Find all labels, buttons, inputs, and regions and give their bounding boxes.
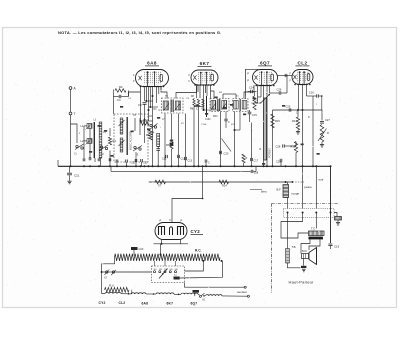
label bleu wire xyxy=(261,190,267,194)
MF2 primary coil xyxy=(211,101,216,110)
chassis boundary dash-dot horizontal xyxy=(272,203,339,205)
heater filament 6Q7 xyxy=(205,295,249,298)
scan noise speckles xyxy=(60,40,371,281)
wire tuning section verticals xyxy=(95,128,110,166)
tube 6Q7 U3 xyxy=(247,60,277,86)
MF1 secondary coil xyxy=(175,101,180,110)
wire MF2 primary up to 6K7 plate xyxy=(211,91,215,99)
resistor R2 xyxy=(115,85,126,92)
svg-text:C14: C14 xyxy=(249,86,254,90)
wire AVC lower line xyxy=(149,181,293,183)
svg-text:T.B.: T.B. xyxy=(292,245,297,249)
resistor R5 xyxy=(141,118,150,126)
wire coupling down xyxy=(272,109,304,167)
wire switch branch xyxy=(101,271,152,273)
capacitor C24b xyxy=(224,112,230,129)
capacitor C12 xyxy=(178,155,186,161)
wire 6K7 extra pins xyxy=(198,85,220,111)
svg-text:C25: C25 xyxy=(286,105,291,109)
svg-text:P: P xyxy=(181,219,183,223)
svg-text:6A8: 6A8 xyxy=(142,301,149,305)
svg-text:C21: C21 xyxy=(74,174,80,178)
junction dots heater line xyxy=(128,293,205,297)
svg-text:R: R xyxy=(260,148,262,151)
svg-text:L2: L2 xyxy=(81,139,84,143)
svg-text:C13b: C13b xyxy=(201,124,207,126)
svg-text:C8: C8 xyxy=(138,103,142,107)
wire dashes to speaker plug xyxy=(293,181,304,183)
wire main bus xyxy=(58,165,331,167)
svg-text:NOTA. — Les commutateurs I1,: NOTA. — Les commutateurs I1, I2, I3, I4,… xyxy=(58,30,222,35)
wire 6K7 pin drops xyxy=(197,85,211,110)
svg-text:R17: R17 xyxy=(292,119,297,123)
capacitor C4 xyxy=(114,95,129,102)
svg-text:jaune: jaune xyxy=(304,185,313,189)
svg-text:6Q7: 6Q7 xyxy=(191,301,198,305)
wire antenna A down xyxy=(70,89,72,112)
capacitor C21 xyxy=(67,166,80,181)
capacitor C16 xyxy=(307,91,323,111)
CY2 label xyxy=(191,229,204,235)
resistor R17 screen xyxy=(292,109,300,130)
switch I4 xyxy=(150,124,158,135)
capacitor C17b xyxy=(251,122,259,167)
tube 6K7 U2 xyxy=(191,61,218,86)
wire 6Q7 plate drop xyxy=(269,85,271,94)
capacitor C3 xyxy=(89,157,91,160)
junction dots mid band xyxy=(116,152,221,200)
volume pot wiper arrow xyxy=(261,94,271,103)
trimmer arrow osc xyxy=(119,120,125,146)
resistor R10 xyxy=(202,99,206,111)
svg-text:R12: R12 xyxy=(254,100,259,102)
capacitor C18 xyxy=(251,166,259,174)
wire bleu stub xyxy=(250,189,262,191)
svg-text:L1: L1 xyxy=(81,124,84,128)
oscillator coil L5 xyxy=(120,138,123,152)
ground speaker right xyxy=(336,223,340,226)
wire bus to rectifier xyxy=(172,165,204,222)
wire detector drop2 xyxy=(234,112,241,132)
svg-text:R.U.: R.U. xyxy=(109,283,115,287)
wire R.C. left end loop xyxy=(102,257,115,293)
svg-text:P: P xyxy=(160,219,162,223)
resistor R13 vertical xyxy=(253,92,262,110)
svg-text:C4: C4 xyxy=(117,98,121,102)
wire 6A8 pin fan xyxy=(145,87,158,109)
capacitor C6 on bus xyxy=(126,160,128,167)
svg-text:R4: R4 xyxy=(146,133,150,137)
choke B.F. xyxy=(277,182,289,209)
tube CL2 U4 xyxy=(292,60,313,85)
resistor R15 xyxy=(271,114,281,128)
svg-text:CL2: CL2 xyxy=(298,60,308,65)
svg-text:CY2: CY2 xyxy=(99,301,106,305)
volume potentiometer R18 element xyxy=(260,98,267,160)
tone potentiometer R19 xyxy=(318,125,329,143)
svg-text:secteur: secteur xyxy=(237,290,247,294)
coil label L1 xyxy=(81,124,84,128)
earth terminal T xyxy=(69,112,75,116)
MF2 secondary coil xyxy=(222,101,227,110)
svg-text:130: 130 xyxy=(159,269,162,271)
CY2 anode 2 xyxy=(178,227,184,236)
label 6K7 filament xyxy=(167,301,174,305)
wire noir drop xyxy=(330,166,332,243)
wire MF2 bottom drop xyxy=(220,112,222,168)
svg-text:B.M: B.M xyxy=(302,250,306,253)
wire transformer to voice coil xyxy=(301,239,320,253)
capacitor C23 filter xyxy=(131,247,144,256)
volume potentiometer R18 lines xyxy=(264,85,268,167)
junction antenna bus xyxy=(70,165,72,167)
capacitor C9 on bus xyxy=(141,159,143,166)
tiny labels right section xyxy=(296,103,317,119)
wire AVC diagonal xyxy=(222,139,232,152)
scan noise field xyxy=(6,32,393,305)
wire 6Q7 to CL2 grid coupling xyxy=(278,74,293,77)
svg-text:R2: R2 xyxy=(119,85,123,89)
capacitor C22 mains xyxy=(193,290,200,296)
trimmer capacitor C2 xyxy=(83,158,85,161)
dropper resistor R.C. zigzag xyxy=(115,254,221,261)
MF1 core bars xyxy=(171,100,174,113)
svg-text:C29: C29 xyxy=(276,160,281,164)
svg-text:noir: noir xyxy=(319,178,324,182)
detector primary coil xyxy=(234,101,239,110)
wire osc block internals xyxy=(135,118,145,143)
switch I5b xyxy=(111,270,116,275)
capacitor C15 xyxy=(248,110,258,122)
label CY2 filament xyxy=(99,301,106,305)
wire detector to 6Q7 diode xyxy=(244,85,254,99)
ground below C21 xyxy=(67,181,71,184)
switch I5a xyxy=(105,269,110,279)
svg-text:110: 110 xyxy=(154,269,157,271)
resistor R4 xyxy=(146,130,152,140)
wire CY2 to heater chain xyxy=(160,244,162,256)
wire secondary right side xyxy=(89,128,91,158)
wire 6Q7 diode drops xyxy=(258,85,262,98)
coil L1 xyxy=(87,124,92,129)
wire voice coil to ground xyxy=(303,259,305,266)
wire selector taps to R.C. xyxy=(155,261,176,266)
wire heater chain xyxy=(102,293,105,295)
svg-text:CL2: CL2 xyxy=(119,301,126,305)
padding coil L6 xyxy=(157,134,160,147)
svg-text:C26: C26 xyxy=(277,88,282,92)
wire selector to tap 2 xyxy=(180,261,223,278)
tiny text labels scatter xyxy=(128,92,268,129)
switch I3 xyxy=(133,146,142,157)
coil L2 xyxy=(87,139,92,144)
wire coil L1 L2 left leads xyxy=(84,126,87,158)
oscillator block vertical label xyxy=(129,131,133,150)
svg-text:C19b: C19b xyxy=(205,119,211,121)
resistor R1 xyxy=(108,137,116,145)
svg-text:C23: C23 xyxy=(139,247,144,251)
chassis boundary dash-dot vertical xyxy=(271,204,273,293)
potentiometer vertical label xyxy=(268,148,271,158)
svg-text:T: T xyxy=(74,112,76,116)
wire bus left upturn xyxy=(57,160,59,166)
detector core bars xyxy=(240,99,241,111)
switch I1 xyxy=(75,144,84,156)
tube 6A8 U1 xyxy=(136,60,169,87)
svg-text:R14: R14 xyxy=(222,184,227,188)
capacitor C8 screen xyxy=(138,103,147,121)
svg-text:T.C: T.C xyxy=(311,227,315,231)
svg-text:R16: R16 xyxy=(291,145,296,149)
resistor R7 AVC xyxy=(155,180,166,187)
capacitor C26 xyxy=(270,76,288,95)
voice coil B.M. xyxy=(302,250,309,259)
label jaune wire xyxy=(304,185,313,189)
CY2 pin labels P xyxy=(160,218,183,223)
wire 6Q7 diode load xyxy=(251,97,259,103)
wire strip to output transformer xyxy=(281,213,316,232)
svg-text:R: R xyxy=(327,132,329,135)
wire under 6K7 resistors xyxy=(193,107,203,168)
svg-text:MF2: MF2 xyxy=(213,116,218,118)
svg-text:C20: C20 xyxy=(224,152,229,156)
value label blobs xyxy=(89,97,320,165)
resistor R14 AVC xyxy=(219,180,229,187)
output transformer T.C. xyxy=(309,227,325,240)
svg-text:C15: C15 xyxy=(252,113,257,117)
svg-text:R: R xyxy=(246,157,248,160)
svg-text:R.C.: R.C. xyxy=(195,249,201,253)
capacitor C5 on bus xyxy=(116,160,118,167)
svg-text:240: 240 xyxy=(175,269,178,271)
detector secondary coil xyxy=(242,101,247,110)
wire MF1 bottoms down xyxy=(165,114,179,167)
label secteur xyxy=(237,290,247,294)
svg-text:C28: C28 xyxy=(276,145,281,149)
wire rouge into strip xyxy=(302,172,304,209)
tiny labels antenna xyxy=(79,120,107,136)
antenna terminal A xyxy=(69,87,76,91)
oscillator coil L4 xyxy=(120,118,123,134)
wire mains line upper xyxy=(185,283,247,289)
capacitor C29 on bus xyxy=(276,159,282,167)
svg-text:C: C xyxy=(228,121,230,124)
capacitor C22 osc xyxy=(131,152,137,166)
label rouge wire xyxy=(292,192,300,196)
label noir wire xyxy=(319,178,324,182)
capacitor C11 xyxy=(162,155,167,161)
switch I6 mains xyxy=(199,293,205,301)
svg-text:160: 160 xyxy=(164,269,167,271)
wire rouge drop xyxy=(302,166,304,172)
label cluster 6K7 xyxy=(191,96,218,121)
label 6A8 filament xyxy=(142,301,149,305)
wire field coil feed xyxy=(287,213,289,249)
wire selector to tap 1 xyxy=(185,261,204,271)
svg-text:R1: R1 xyxy=(113,139,117,143)
wire AVC line xyxy=(111,166,251,171)
wire CL2 pin drops xyxy=(299,84,307,168)
capacitor C20 xyxy=(220,151,229,156)
junction dots under MF1 xyxy=(148,165,187,167)
svg-text:6A8: 6A8 xyxy=(147,60,157,65)
svg-text:CY2: CY2 xyxy=(191,229,201,234)
capacitor C1 on bus xyxy=(98,158,100,161)
terminal strip junctions xyxy=(287,212,332,214)
oscillator block dashed box xyxy=(114,114,148,162)
wire 6A8 pin drops xyxy=(145,87,162,111)
switch I2 xyxy=(100,145,109,156)
svg-text:BLOC ACCORD: BLOC ACCORD xyxy=(129,131,133,150)
resistor R8 xyxy=(190,98,195,111)
junction dots antenna bus xyxy=(83,165,111,167)
svg-text:C: C xyxy=(196,108,198,111)
detector transformer dashed box xyxy=(233,99,249,112)
IF transformer MF1 dashed box xyxy=(162,98,184,113)
wire transformer left lead xyxy=(281,231,309,238)
junction dots on R.C. xyxy=(202,260,222,262)
svg-text:C13: C13 xyxy=(188,160,193,163)
speaker cone xyxy=(309,248,317,265)
svg-text:Haut-Parleur: Haut-Parleur xyxy=(289,280,315,285)
resistor R16 grid xyxy=(291,142,298,168)
pin labels F 6A8 xyxy=(133,74,135,83)
wire CL2 cathode down xyxy=(312,96,314,167)
pin labels F 6K7 xyxy=(189,74,191,83)
svg-text:C22: C22 xyxy=(131,162,136,165)
coil column striped xyxy=(99,122,102,158)
svg-text:B.F: B.F xyxy=(277,188,282,192)
MF2 core bars xyxy=(217,99,220,111)
CY2 filament xyxy=(170,227,173,235)
note text NOTA xyxy=(58,30,222,35)
svg-text:POTENT.: POTENT. xyxy=(268,148,271,158)
svg-text:C11: C11 xyxy=(162,158,167,161)
svg-text:C17: C17 xyxy=(254,160,259,163)
wire antenna coupling loop xyxy=(71,124,78,143)
svg-text:C16: C16 xyxy=(309,91,314,95)
label Haut-Parleur xyxy=(289,280,315,285)
capacitor C27 xyxy=(320,118,330,123)
MF1 trimmer arrows xyxy=(164,104,181,111)
CL2 grid pin labels xyxy=(290,73,292,83)
capacitor C13 xyxy=(185,114,193,167)
svg-text:6K7: 6K7 xyxy=(167,301,174,305)
selector arm xyxy=(159,269,168,279)
resistor R16b xyxy=(242,154,248,166)
capacitor C10 label xyxy=(143,162,148,165)
ground below tone pot xyxy=(320,142,324,147)
trimmer arrows antenna xyxy=(86,125,92,145)
wire horizontal under 6A8 xyxy=(141,120,153,122)
wire 6Q7 grid loop xyxy=(246,69,259,98)
core bar left xyxy=(94,122,95,158)
field coil T.B. xyxy=(286,245,297,263)
svg-text:220: 220 xyxy=(169,269,172,271)
coil label L2 xyxy=(81,139,84,143)
selector voltage labels xyxy=(154,269,178,271)
voltage selector dashed box xyxy=(152,266,185,283)
resistor hum to ground xyxy=(334,213,342,223)
MF1 label C14 xyxy=(159,108,161,112)
selector contact studs xyxy=(154,271,177,273)
capacitor C14 coupling xyxy=(248,86,257,94)
wire tone branch xyxy=(303,110,323,121)
wire MF1 primary to 6A8 plate xyxy=(161,87,167,99)
rectifier tube CY2 envelope xyxy=(155,223,187,240)
wire field coil bottom xyxy=(288,263,301,268)
ground below R17 xyxy=(296,130,300,134)
resistor R6 vertical xyxy=(166,114,173,167)
heater filaments chain xyxy=(105,292,200,294)
svg-text:R15: R15 xyxy=(275,119,280,123)
ground blob speaker xyxy=(301,266,306,272)
svg-text:C: C xyxy=(159,108,161,112)
svg-text:rouge: rouge xyxy=(292,192,300,196)
wire CY2 cathode bottom xyxy=(154,240,189,245)
resistor R.U. xyxy=(105,283,132,294)
capacitor C28 xyxy=(276,142,297,149)
junction dots AVC line xyxy=(285,181,294,183)
CY2 anode 1 xyxy=(159,227,165,236)
wire osc grid right xyxy=(129,91,141,97)
svg-text:C: C xyxy=(208,162,210,165)
speaker terminal strip dotted box xyxy=(284,209,335,218)
MF1 primary coil xyxy=(163,101,168,110)
wire MF2 link xyxy=(223,94,236,99)
fuse xyxy=(174,275,180,280)
label CL2 filament xyxy=(119,301,126,305)
svg-text:6Q7: 6Q7 xyxy=(260,60,270,65)
svg-text:C10: C10 xyxy=(143,162,148,165)
wire MF1 secondary to 6K7 grid xyxy=(176,86,197,99)
core bar oscillator xyxy=(127,117,128,155)
wire 6K7 cathode bar xyxy=(206,96,208,117)
capacitor on bus C30 xyxy=(205,160,210,168)
wire 6A8 pin1 drop xyxy=(140,87,142,123)
capacitor C19 xyxy=(328,244,339,249)
wire osc grid left xyxy=(113,90,115,115)
label 6Q7 filament xyxy=(191,301,198,305)
svg-text:R6: R6 xyxy=(166,143,170,147)
MF2 trimmer arrows xyxy=(211,103,227,110)
svg-text:C19: C19 xyxy=(334,245,340,249)
label cluster osc xyxy=(133,109,165,121)
wire jaune drop xyxy=(315,165,317,208)
wire earth T down to bus xyxy=(70,115,72,166)
resistor R9 xyxy=(196,99,200,111)
svg-text:6K7: 6K7 xyxy=(200,61,210,66)
IF transformer MF2 dashed box xyxy=(210,99,229,112)
capacitor C25 xyxy=(286,105,291,112)
svg-text:bleu: bleu xyxy=(261,190,267,194)
label R.C. xyxy=(195,249,201,253)
junction dots main bus right xyxy=(285,165,332,167)
wire detector bottom drop xyxy=(234,112,236,168)
capacitor C4a xyxy=(109,158,111,161)
junction volume pot xyxy=(263,165,269,167)
svg-text:C27: C27 xyxy=(325,118,330,122)
junction 6A8 cathode xyxy=(148,95,154,166)
capacitor C7 padding xyxy=(156,147,160,167)
